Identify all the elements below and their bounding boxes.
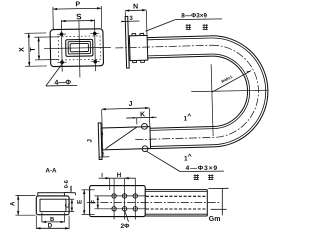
tube bottom outer [145, 215, 207, 217]
dim 3 arrow (plate thickness) [121, 20, 125, 22]
dim IH mid line [110, 177, 125, 179]
gasket dashed rectangle [58, 36, 100, 60]
rivet col centerline 3 [134, 179, 136, 220]
svg-text:A-A: A-A [45, 167, 57, 174]
bolt centerline left [60, 20, 63, 72]
dim R line [212, 71, 251, 92]
rivet head bottom 1 [132, 60, 136, 62]
bottom arm outer wall outer line [151, 147, 214, 149]
cover plate [38, 193, 65, 196]
dim X ext bottom [25, 65, 47, 67]
shelf rivet label top [175, 18, 222, 21]
rivet head top 1 [132, 34, 136, 36]
svg-text:E: E [77, 200, 84, 204]
dim B line [42, 221, 65, 223]
waveguide aperture ring 3 [70, 43, 88, 51]
dim D ext left [35, 216, 37, 229]
dim H line [125, 177, 136, 179]
tube hidden bottom [146, 208, 207, 210]
svg-text:T: T [30, 47, 37, 52]
leader 2phi [125, 211, 129, 222]
svg-text:J: J [129, 101, 133, 108]
dim C ext bottom [66, 211, 74, 213]
shelf rivet label bottom [180, 170, 224, 172]
dim E line [83, 190, 85, 215]
lid overhang end tick [75, 193, 77, 196]
rivet col centerline 2 [124, 179, 126, 220]
bolt centerline right [94, 19, 97, 71]
dim K line [126, 116, 156, 119]
waveguide aperture ring 1 [66, 39, 93, 56]
svg-text:H: H [117, 172, 122, 179]
dim 0-6 arrow stem [70, 186, 72, 192]
bend center vertical centerline [211, 64, 213, 136]
bolt hole bottom-left [60, 60, 64, 64]
dim J ext right [148, 108, 150, 126]
bend centerline arc [211, 44, 260, 137]
svg-text:R40±1: R40±1 [220, 74, 233, 84]
dim T line [38, 37, 40, 60]
rivet circle bottom [142, 146, 148, 152]
dim J left ext / vertical dim line [102, 110, 103, 157]
svg-text:1: 1 [184, 116, 188, 123]
dim C line [71, 199, 73, 211]
dim X ext top [25, 32, 47, 34]
shelf 4-phi [46, 84, 77, 87]
top arm centerline [115, 45, 211, 48]
dim K arrowheads [133, 117, 137, 119]
rivet chinese char 2 (top) [203, 24, 208, 29]
dim T ext top [34, 36, 57, 38]
dim E ext bottom [82, 213, 95, 215]
bottom arm inner wall inner line [150, 129, 213, 131]
dim B ext right [64, 213, 66, 223]
rivet circle r1c2 [122, 194, 126, 198]
top arm inner wall inner line [148, 54, 212, 56]
svg-text:D: D [48, 224, 53, 230]
horizontal centerline [44, 47, 111, 48]
dim A ext bottom [16, 214, 36, 216]
end dim top line [209, 187, 229, 189]
dim P ext right [100, 6, 102, 28]
top arm outer wall outer line [147, 36, 211, 38]
bend inner arc inner [211, 53, 250, 129]
tube end face [206, 190, 208, 216]
flange body outline [50, 29, 103, 67]
rivet col centerline 1 [113, 179, 115, 220]
flange front outline [90, 186, 146, 217]
dim K ext [136, 118, 138, 124]
lid overhang line [64, 192, 75, 194]
dim E ext top [82, 189, 95, 191]
svg-text:C: C [66, 203, 72, 208]
svg-text:4—Φ: 4—Φ [54, 79, 71, 86]
svg-text:0-6: 0-6 [64, 180, 70, 188]
svg-text:8—Φ3×9: 8—Φ3×9 [181, 12, 207, 19]
bottom arm outer wall inner line [151, 145, 214, 147]
svg-text:B: B [50, 217, 54, 223]
svg-text:J: J [86, 139, 93, 143]
vertical dim bottom ext [99, 156, 110, 158]
bottom port flange plate [98, 123, 102, 160]
rivet row centerline 1 [95, 195, 147, 197]
section body [36, 196, 69, 215]
dim N ext right [145, 11, 148, 35]
rivet circle r1c3 [133, 194, 137, 198]
dim T ext bottom [35, 59, 58, 61]
bolt hole cross ticks [57, 33, 66, 35]
rivet circle r2c1 [112, 207, 116, 211]
dim B ext left [41, 213, 43, 223]
rivet circle r2c2 [122, 207, 126, 211]
bolt hole top-right [93, 32, 97, 36]
rivet row centerline 2 [95, 208, 147, 210]
svg-text:X: X [19, 47, 26, 52]
bend outer arc outer [211, 34, 270, 147]
bottom port block [101, 127, 150, 150]
rivet chinese char 1 (bottom) [194, 174, 199, 179]
end dim vertical [221, 188, 223, 215]
bottom arm inner wall outer line [150, 127, 213, 129]
bend horizontal centerline [191, 90, 268, 91]
rivet circle r1c1 [112, 194, 116, 198]
dim N line [125, 9, 146, 12]
svg-text:1: 1 [184, 156, 188, 163]
rivet circle top [141, 123, 147, 129]
bend inner arc outer [211, 55, 248, 126]
bottom arm centerline [135, 137, 213, 139]
block diagonal [105, 127, 138, 149]
dim I/H ext [109, 178, 111, 190]
bend outer arc inner [211, 37, 267, 145]
svg-text:K: K [140, 111, 145, 118]
tube hidden top [146, 195, 207, 197]
tube top inner [145, 190, 207, 192]
top arm inner wall outer line [148, 56, 212, 58]
dim S line [61, 19, 94, 22]
flange plate (left, top port) [125, 16, 129, 68]
dim R arrowhead [247, 71, 251, 73]
dim D line [36, 227, 69, 229]
bolt hole bottom-right [93, 60, 97, 64]
waveguide aperture ring 2 [68, 41, 90, 54]
svg-text:A: A [9, 201, 16, 206]
leader rivet label top [146, 20, 176, 32]
tube bottom inner [145, 213, 207, 215]
svg-text:N: N [133, 3, 138, 10]
dim J line [102, 108, 150, 109]
top arm outer wall inner line [147, 38, 211, 40]
dim I line [99, 177, 110, 179]
dim C ext top [66, 198, 74, 200]
dim P line [53, 7, 101, 10]
main centerline [87, 201, 220, 203]
leader rivet label bottom [146, 151, 180, 172]
rivet chinese char 1 (top) [186, 24, 191, 29]
rivet head bottom 2 [140, 60, 144, 62]
dim 3 line [121, 20, 139, 22]
section cavity [40, 199, 66, 211]
bolt hole top-left [60, 32, 64, 36]
dim F line [97, 196, 99, 209]
vertical dim arrows [101, 131, 103, 135]
svg-text:2Φ: 2Φ [121, 223, 131, 230]
dim X line [28, 33, 31, 66]
svg-text:4—Φ3×9: 4—Φ3×9 [186, 165, 219, 172]
rivet circle r2c3 [133, 207, 137, 211]
rivet chinese char 2 (bottom) [208, 174, 213, 179]
svg-text:F: F [91, 200, 97, 204]
tube top outer [145, 189, 207, 191]
end dim bottom line [211, 208, 227, 210]
vertical centerline [78, 20, 81, 77]
leader 4-phi [45, 64, 62, 86]
dim A line [17, 195, 19, 215]
dim A ext top [16, 194, 36, 196]
rivet head top 2 [140, 33, 144, 35]
dim P ext left [52, 7, 54, 29]
rivet block (top port) [129, 35, 147, 60]
svg-text:S: S [76, 12, 82, 21]
dim N ext left [124, 11, 126, 16]
svg-text:P: P [75, 1, 80, 8]
dim D ext right [68, 216, 70, 229]
svg-text:Gm: Gm [209, 216, 221, 223]
